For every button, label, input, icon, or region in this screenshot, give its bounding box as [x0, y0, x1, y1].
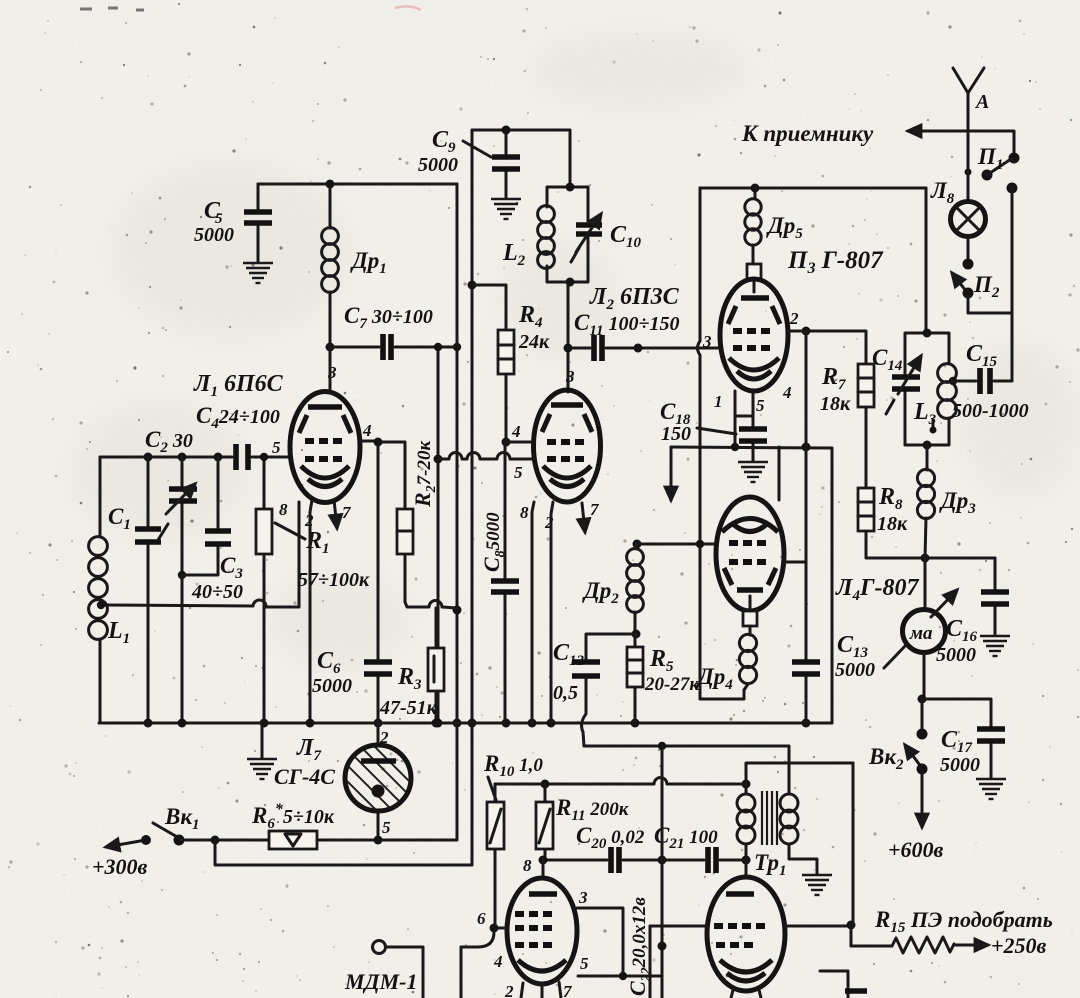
- svg-text:C20 0,02: C20 0,02: [576, 823, 645, 852]
- tube V1 pin2 wire: [310, 500, 312, 723]
- choke Dr3: [917, 445, 976, 558]
- antenna A: [953, 68, 989, 131]
- wire cathode line y605: [97, 502, 299, 609]
- svg-text:Л1 6П6С: Л1 6П6С: [193, 371, 284, 400]
- pin 8 wire L2: [520, 502, 534, 723]
- svg-text:МДМ-1: МДМ-1: [344, 969, 417, 994]
- svg-text:C424÷100: C424÷100: [196, 403, 280, 432]
- wire pin2 screen line L3: [788, 327, 866, 365]
- wire top node C5/Dr1: [258, 183, 457, 186]
- svg-text:3: 3: [702, 332, 712, 351]
- capacitor C13: [792, 632, 906, 681]
- capacitor C11: [568, 310, 721, 361]
- wire plate line y187: [700, 184, 926, 193]
- wire L6 bottom pin stubs: [731, 990, 761, 998]
- svg-text:4: 4: [782, 383, 792, 402]
- tube L3 G-807: [702, 279, 799, 415]
- svg-text:5: 5: [272, 438, 281, 457]
- svg-text:R11 200к: R11 200к: [555, 795, 630, 824]
- choke Dr1: [322, 184, 387, 347]
- variable capacitor C14: [872, 345, 921, 414]
- inductor L3: [913, 364, 957, 434]
- tank circuit C14 / L3coil: [905, 329, 949, 450]
- svg-text:2: 2: [789, 309, 799, 328]
- svg-text:8: 8: [520, 503, 529, 522]
- svg-text:R6*5÷10к: R6*5÷10к: [251, 801, 335, 832]
- ground under C5: [243, 263, 273, 283]
- tube L5 modulator: [493, 878, 577, 998]
- resistor R8: [858, 484, 995, 563]
- svg-text:5000: 5000: [194, 224, 234, 246]
- meter mA: [903, 558, 958, 704]
- wire R10 R11 feed y784: [495, 778, 746, 789]
- wire C6 branch x378: [377, 442, 380, 723]
- svg-text:+600в: +600в: [888, 837, 944, 862]
- pin 7 arrow L2: [582, 500, 600, 532]
- wire tank to pin3 L2: [564, 282, 573, 392]
- transformer Tr1: [737, 791, 817, 879]
- variable capacitor C2: [158, 457, 197, 723]
- mic connector MDM-1: [344, 941, 423, 998]
- pin 2 wire L2: [544, 502, 554, 723]
- resistor R1: [256, 453, 370, 723]
- arrow to receiver: [741, 121, 968, 146]
- svg-text:C7 30÷100: C7 30÷100: [344, 303, 433, 332]
- pin6 wire L5: [461, 909, 507, 947]
- svg-text:R27-20к: R27-20к: [410, 439, 439, 508]
- svg-text:5: 5: [514, 463, 523, 482]
- svg-text:C2 30: C2 30: [145, 427, 193, 456]
- capacitor C15: [952, 313, 1029, 422]
- switch P1: [965, 131, 1020, 201]
- resistor R11: [536, 784, 630, 860]
- wire grid line y457 with capacitor C4: [100, 438, 289, 470]
- resistor R10: [483, 751, 543, 928]
- svg-text:2: 2: [304, 511, 314, 530]
- wire grid line L4 y544: [637, 540, 716, 548]
- switch P2: [952, 236, 1012, 313]
- bottom fragment box: [820, 971, 867, 998]
- svg-text:6: 6: [477, 909, 486, 928]
- resistor R3: [379, 608, 444, 728]
- lamp L8: [930, 178, 986, 237]
- tube L6 modulator output: [707, 860, 785, 991]
- wire C9 top y130: [472, 126, 570, 135]
- svg-text:А: А: [974, 91, 989, 113]
- wire C12 coupling to Tr1 y746: [584, 742, 789, 794]
- capacitor C3: [182, 457, 243, 603]
- resistor R5: [627, 634, 700, 723]
- wire L3 pins 1/5: [731, 391, 753, 451]
- wire vertical x472 C9 node to bus to +300 wire: [468, 130, 477, 863]
- tube L2 6P3S: [534, 367, 601, 502]
- tube L4 G-807 inverted: [716, 497, 784, 635]
- wire top plate feed to tank x927: [925, 188, 928, 333]
- choke Dr5: [745, 188, 803, 292]
- chassis ground under bus: [261, 723, 264, 758]
- ground under C9: [491, 199, 521, 219]
- wire cathode/ground line y447: [671, 443, 832, 724]
- wire pin4 line L2: [506, 422, 534, 442]
- capacitor C22 electrolytic line: [658, 746, 667, 998]
- wire L4 pin stub x779: [778, 447, 781, 500]
- svg-text:П3 Г-807: П3 Г-807: [787, 247, 884, 277]
- svg-text:5000: 5000: [940, 754, 980, 776]
- resistor R4: [472, 285, 550, 447]
- svg-text:0,5: 0,5: [553, 682, 578, 704]
- svg-text:+250в: +250в: [991, 933, 1047, 958]
- svg-text:2: 2: [379, 728, 389, 747]
- wire grid row exit L4: [784, 561, 806, 564]
- svg-text:5: 5: [382, 818, 391, 837]
- svg-text:К приемнику: К приемнику: [741, 121, 874, 146]
- resistor R7: [820, 364, 874, 488]
- scan marks top-left: [80, 8, 144, 10]
- choke Dr4: [696, 634, 757, 693]
- svg-text:4: 4: [493, 952, 503, 971]
- capacitor C12: [553, 634, 636, 746]
- wire x700 vertical: [698, 188, 745, 699]
- svg-text:5000: 5000: [312, 675, 352, 697]
- svg-text:4: 4: [362, 421, 372, 440]
- capacitor C20: [576, 823, 645, 873]
- svg-text:2: 2: [504, 982, 514, 998]
- capacitor C8: [491, 442, 519, 723]
- resistor R2: [374, 438, 458, 609]
- capacitor C7: [330, 303, 457, 360]
- wire Tr1 top y763: [742, 763, 854, 794]
- pin5 wire L5: [578, 954, 662, 980]
- wire pin4 line L1: [359, 440, 378, 443]
- svg-text:8: 8: [279, 500, 288, 519]
- inductor L1: [89, 457, 131, 723]
- capacitor C1: [108, 457, 161, 723]
- main bus wire y723: [99, 719, 832, 728]
- svg-text:5: 5: [580, 954, 589, 973]
- switch Vk2: [868, 699, 944, 862]
- svg-text:47-51к: 47-51к: [379, 697, 438, 719]
- capacitor C9: [418, 127, 520, 197]
- capacitor C5: [194, 184, 272, 262]
- wire Tr1 right feed x853: [851, 763, 853, 946]
- tube L7 SG-4S stabilizer: [274, 723, 420, 840]
- wire lower return y865: [215, 840, 472, 865]
- pin3 wire L5: [577, 888, 623, 976]
- capacitor C16: [936, 558, 1009, 666]
- svg-text:18к: 18к: [820, 393, 851, 415]
- ground under C18: [752, 447, 755, 461]
- capacitor C21: [654, 823, 718, 873]
- wire grid line y860 modulator: [523, 856, 751, 879]
- svg-text:+300в: +300в: [92, 854, 148, 879]
- wire x570 down to tank: [569, 130, 572, 187]
- svg-text:1: 1: [714, 392, 723, 411]
- wire pin5 line L2 with hops: [438, 453, 534, 483]
- capacitor C17: [922, 699, 1005, 778]
- svg-text:5000: 5000: [835, 659, 875, 681]
- node pin3 L1 / C7: [326, 343, 335, 352]
- variable resistor R6: [179, 801, 457, 849]
- svg-text:4: 4: [511, 422, 521, 441]
- svg-text:5: 5: [756, 396, 765, 415]
- tube V1 pin7 arrow: [334, 500, 337, 528]
- wire vertical x457 top node to bus to Vk1 wire: [453, 184, 462, 838]
- inductor L2: [502, 206, 554, 269]
- resistor R15: [851, 907, 1053, 958]
- tank circuit L2 / C10: [547, 183, 588, 287]
- svg-text:24к: 24к: [518, 331, 550, 353]
- svg-text:ма: ма: [909, 623, 933, 644]
- svg-text:150: 150: [661, 423, 691, 445]
- svg-text:3: 3: [565, 367, 575, 386]
- svg-text:C21 100: C21 100: [654, 823, 718, 852]
- svg-text:5000: 5000: [936, 644, 976, 666]
- svg-text:Л4Г-807: Л4Г-807: [835, 575, 919, 604]
- wire screen bypass x806: [805, 331, 808, 723]
- tube L1 6P6S: [290, 347, 360, 503]
- wire grid line L6 y926: [650, 921, 856, 998]
- svg-text:20-27к: 20-27к: [644, 674, 700, 695]
- svg-text:Л2 6П3С: Л2 6П3С: [589, 284, 680, 313]
- variable capacitor C10: [571, 214, 642, 262]
- wire P1 alternate contact: [1007, 183, 1018, 314]
- capacitor C18: [660, 399, 767, 447]
- switch Vk1: [92, 804, 200, 879]
- svg-text:500-1000: 500-1000: [952, 400, 1029, 422]
- choke Dr2: [582, 540, 643, 639]
- capacitor C6: [312, 648, 392, 697]
- svg-text:40÷50: 40÷50: [191, 581, 243, 603]
- svg-text:18к: 18к: [877, 513, 908, 535]
- wire mic box left: [460, 947, 463, 998]
- svg-text:2: 2: [544, 513, 554, 532]
- wire vertical x438 C7 to bus: [434, 343, 443, 728]
- svg-text:8: 8: [523, 856, 532, 875]
- svg-text:СГ-4С: СГ-4С: [274, 764, 335, 789]
- svg-text:3: 3: [578, 888, 588, 907]
- svg-text:5000: 5000: [418, 154, 458, 176]
